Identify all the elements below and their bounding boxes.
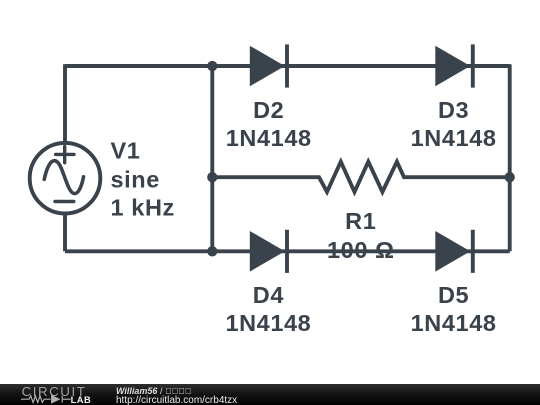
- svg-text:1N4148: 1N4148: [411, 125, 497, 151]
- svg-text:D2: D2: [253, 97, 284, 123]
- svg-text:LAB: LAB: [71, 395, 92, 405]
- svg-text:sine: sine: [111, 166, 160, 192]
- svg-text:1N4148: 1N4148: [411, 310, 497, 336]
- svg-text:1N4148: 1N4148: [226, 125, 312, 151]
- svg-text:D4: D4: [253, 282, 284, 308]
- svg-text:R1: R1: [345, 208, 376, 234]
- svg-text:D5: D5: [438, 282, 469, 308]
- svg-text:D3: D3: [438, 97, 469, 123]
- svg-text:V1: V1: [111, 138, 141, 164]
- svg-text:1 kHz: 1 kHz: [111, 194, 175, 220]
- svg-text:100 Ω: 100 Ω: [327, 237, 395, 263]
- svg-text:1N4148: 1N4148: [225, 310, 311, 336]
